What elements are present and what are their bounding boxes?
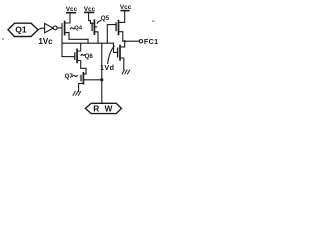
output port RW hexagon [85,103,121,113]
svg-text:Vcc: Vcc [66,6,78,13]
svg-text:Q4: Q4 [74,26,83,32]
wire inverter output to node A [57,27,62,29]
wire to Q6 gate [62,56,75,58]
transistor Q3 lower right [118,41,125,70]
transistor Q2 upper right [116,11,125,41]
inverter U1 [45,23,58,32]
Vcc rail 2 [84,6,96,13]
svg-text:Vcc: Vcc [120,4,132,11]
speck upper right [152,21,154,22]
node A horizontal wire [62,42,114,44]
svg-text:FC1: FC1 [144,37,158,46]
wire riser to upper-right gate [107,25,116,44]
svg-text:R W: R W [93,105,114,114]
ground lower right [122,70,130,74]
Vcc rail 1 [66,6,78,13]
ground under Q7 [73,92,81,96]
svg-text:Q5: Q5 [101,15,110,22]
svg-text:Q1: Q1 [15,24,27,34]
svg-text:1Vd: 1Vd [100,63,114,72]
wire to lower-right gate [114,43,118,52]
wire node A to RW port [101,43,103,103]
output wire FC1 [123,37,159,46]
transistor Q5 [89,13,110,43]
junction step wire [87,39,89,43]
svg-text:Q6: Q6 [85,53,94,60]
svg-text:1Vc: 1Vc [38,37,53,46]
wire Q1 to inverter [38,28,45,29]
transistor Q7 [65,73,102,92]
leader curve 1Vd [108,46,115,63]
transistor Q4 [65,13,83,39]
Vcc rail 3 [120,4,132,11]
transistor Q6 [75,43,94,74]
speck left edge [2,38,3,39]
input port Q1 hexagon [8,23,38,36]
wire Q4 source rail to Q5 [69,38,88,40]
node A vertical wire (gate bus) [61,24,63,57]
node B junction dot [100,78,103,81]
